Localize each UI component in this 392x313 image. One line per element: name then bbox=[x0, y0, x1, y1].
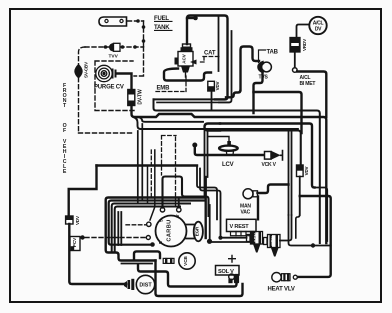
wire dashed carb box bbox=[162, 136, 177, 207]
node fuel line dot2 bbox=[142, 39, 146, 43]
valve VDV right bbox=[297, 165, 304, 177]
wire top band line B bbox=[154, 99, 320, 243]
wire EGR ball line right bbox=[211, 241, 253, 243]
canister bbox=[99, 17, 127, 26]
wire dot line to heat vertical bbox=[289, 215, 331, 246]
valve PCV bbox=[70, 237, 80, 251]
svg-text:SOL V: SOL V bbox=[218, 269, 234, 275]
valve VCB bbox=[179, 253, 195, 269]
component VCB fitting bbox=[163, 258, 174, 264]
node TVV right dot bbox=[121, 45, 125, 49]
wire EGR necks bbox=[186, 225, 194, 239]
wire small pair below VDV right bbox=[296, 196, 300, 238]
node fuel line dot bbox=[142, 25, 146, 29]
wire man vac up right bbox=[258, 185, 289, 194]
wire pair P verticals bbox=[118, 212, 121, 245]
svg-text:VCB: VCB bbox=[183, 255, 188, 265]
svg-text:CARBU: CARBU bbox=[167, 219, 173, 241]
wire valve cap loop to CAT line bbox=[187, 16, 228, 100]
wire dashed mid bbox=[150, 150, 152, 198]
svg-text:VCK V: VCK V bbox=[262, 162, 277, 168]
svg-text:HEAT VLV: HEAT VLV bbox=[268, 287, 295, 293]
wire loop up to TVS bbox=[226, 47, 259, 98]
svg-text:VDV: VDV bbox=[304, 166, 309, 175]
svg-text:EMB: EMB bbox=[157, 86, 171, 92]
svg-text:SV-CBV: SV-CBV bbox=[84, 61, 89, 78]
svg-text:LCV: LCV bbox=[222, 162, 234, 168]
valve EGR bbox=[194, 222, 203, 242]
node carb E dot bbox=[150, 242, 155, 247]
node canister junction bbox=[136, 19, 140, 23]
wire stub left of port1 bbox=[147, 167, 149, 202]
valve DV-TW bbox=[128, 90, 135, 106]
wire sol line1 bbox=[138, 265, 237, 287]
wire second bottom line bbox=[122, 263, 153, 265]
svg-text:PURGE CV: PURGE CV bbox=[94, 85, 124, 91]
svg-text:TVV: TVV bbox=[109, 54, 119, 60]
wire DV-TW long line A with hump bbox=[132, 106, 327, 244]
svg-text:DV: DV bbox=[315, 27, 322, 33]
wire y102 lower line bbox=[157, 101, 229, 103]
wire bundle C2 to carb E bbox=[109, 201, 205, 245]
wire bundle C4 bbox=[115, 207, 180, 253]
wire VRDV to bimet bbox=[294, 52, 296, 67]
svg-text:TAB: TAB bbox=[267, 50, 279, 56]
wire dashed left of port3 bbox=[126, 224, 146, 226]
wire sol line2 bbox=[156, 261, 243, 297]
svg-text:DIST: DIST bbox=[139, 283, 152, 289]
component DIST fitting bbox=[124, 279, 134, 290]
wire bundle C3 bbox=[112, 204, 190, 253]
wire nest line C bbox=[220, 124, 315, 188]
wire branch2 y129 bbox=[134, 117, 298, 129]
svg-text:VDV: VDV bbox=[215, 81, 220, 90]
wire VDV left down to DIST bbox=[69, 224, 126, 284]
wire dashed canister to fuel tank junction bbox=[128, 20, 144, 22]
node dot W1 line bbox=[218, 236, 222, 240]
wire EGR right vertical2 bbox=[209, 205, 211, 239]
wire VCK V stub bbox=[281, 151, 283, 161]
wire CAT inner vertical bbox=[218, 16, 220, 72]
wire to port3 bbox=[150, 150, 155, 220]
svg-text:ACV: ACV bbox=[253, 233, 258, 242]
svg-text:VAC: VAC bbox=[241, 210, 251, 216]
wire TVS branch right bbox=[254, 92, 302, 133]
component restrictor bbox=[231, 231, 256, 244]
valve VDV mid bbox=[208, 81, 215, 91]
wire man vac down to V REST bbox=[257, 197, 259, 220]
valve A/CL DV bbox=[309, 17, 326, 34]
wire inner pair down bbox=[289, 131, 292, 215]
wire nest line D bbox=[220, 131, 301, 166]
node EGR ball bbox=[207, 239, 212, 244]
valve HEAT VLV bbox=[272, 273, 298, 282]
wire ACV left port loop bbox=[164, 69, 211, 81]
svg-text:PCV: PCV bbox=[72, 237, 77, 247]
dashed enclosure purge CV bbox=[95, 61, 134, 111]
symbol arrow into valve bbox=[190, 60, 197, 65]
wire LCV line to VCK V bbox=[195, 146, 263, 155]
wire W1 main left line bbox=[97, 164, 198, 166]
wire VDV down bbox=[211, 91, 213, 111]
wire VCB hook bbox=[134, 251, 160, 258]
wire dashed PCV to carb bbox=[85, 237, 146, 239]
wire carb port1 staircase bbox=[163, 177, 209, 217]
valve TVV bbox=[109, 43, 120, 52]
valve purge CV bbox=[96, 65, 117, 81]
valve VRDV bbox=[290, 38, 300, 53]
wire bundle C1 long route bbox=[106, 198, 205, 261]
node dot on heat line bbox=[311, 243, 315, 247]
svg-text:DV-TW: DV-TW bbox=[138, 89, 144, 105]
box V REST bbox=[227, 219, 257, 231]
valve SV-CBV bbox=[74, 64, 82, 79]
valve VCK V bbox=[265, 151, 281, 160]
svg-text:F: F bbox=[63, 128, 66, 134]
label CAT dashed bbox=[198, 57, 221, 63]
svg-text:BI MET: BI MET bbox=[300, 81, 316, 87]
node LCV line ball bbox=[192, 143, 197, 148]
node TVV left dot bbox=[104, 45, 108, 49]
label EMB dashed underline bbox=[156, 76, 186, 92]
valve ACV top (thermactor) bbox=[175, 18, 194, 77]
box SOL V bbox=[216, 266, 240, 276]
valve MAN VAC bbox=[243, 189, 258, 199]
wire TAB pointer bbox=[259, 50, 266, 63]
symbol plus bbox=[229, 256, 236, 263]
wire CAT pair second bbox=[219, 31, 232, 102]
wire dashed TVV line bbox=[85, 46, 144, 48]
valve LCV bbox=[219, 141, 238, 155]
svg-text:EGR: EGR bbox=[195, 226, 200, 236]
wire enclosure left legs bbox=[205, 127, 208, 198]
wire carb port2 up bbox=[178, 198, 180, 208]
wire bimet right elbow down bbox=[297, 72, 326, 118]
valve VDV left bbox=[66, 216, 73, 224]
wire VCV right elbow bbox=[280, 215, 292, 241]
svg-text:TVS: TVS bbox=[259, 75, 269, 81]
wire dashed SV-CBV vertical bbox=[79, 47, 86, 133]
wire W1 pair down to V REST bbox=[197, 166, 217, 220]
wire dashed vertical fuel tank line bbox=[143, 21, 145, 47]
wire A/CL vertical to VDV right bbox=[300, 133, 302, 165]
valve VCV lower right bbox=[264, 235, 281, 257]
wire dashed SV-CBV to right bbox=[79, 132, 135, 134]
svg-text:V REST: V REST bbox=[230, 224, 250, 230]
wire W1 elbow to VDV left bbox=[69, 166, 97, 217]
wire dashed elbow to DV-TW bbox=[134, 47, 144, 76]
wire fuel line top elbow bbox=[187, 17, 194, 19]
svg-text:CAT: CAT bbox=[204, 51, 216, 57]
carburetor CARB bbox=[146, 208, 186, 247]
wire enclosure u-turn left bbox=[205, 124, 221, 131]
node ball end fuel bbox=[193, 16, 198, 21]
wire A/CL DV to VRDV bbox=[297, 25, 310, 38]
wire drop from band x137.8 bbox=[137, 131, 139, 202]
wire dot to ACV fitting bbox=[221, 237, 247, 239]
wire branch1 y121.8 bbox=[139, 117, 204, 122]
wire EGR right vertical bbox=[204, 177, 206, 238]
wire purge CV to DV-TW bbox=[116, 74, 132, 90]
wire drop from band x142.3 bbox=[141, 124, 143, 199]
svg-text:VDV: VDV bbox=[75, 215, 80, 225]
wire heat branch upper bbox=[315, 188, 328, 242]
node dot before fuel vertical bbox=[133, 45, 137, 49]
valve TVS bbox=[257, 61, 271, 74]
wire LCV stem bbox=[208, 137, 229, 142]
wire y101 upper line bbox=[154, 98, 226, 100]
valve SOL V solenoid bbox=[228, 274, 239, 283]
node A/CL BI MET circle bbox=[293, 68, 298, 73]
svg-text:VRDV: VRDV bbox=[302, 38, 307, 51]
svg-text:VCV: VCV bbox=[270, 236, 275, 245]
valve ACV lower left bbox=[247, 232, 263, 253]
node PCV dot bbox=[80, 235, 84, 239]
wire heat branch lower bbox=[298, 196, 331, 277]
svg-text:TANK: TANK bbox=[154, 25, 170, 31]
valve DIST bbox=[136, 275, 154, 293]
wire W1 pair twin to dot bbox=[200, 169, 221, 237]
wire TVS down leg bbox=[254, 72, 263, 114]
svg-text:ACV: ACV bbox=[182, 54, 187, 64]
wire VDV right down bbox=[299, 177, 301, 216]
